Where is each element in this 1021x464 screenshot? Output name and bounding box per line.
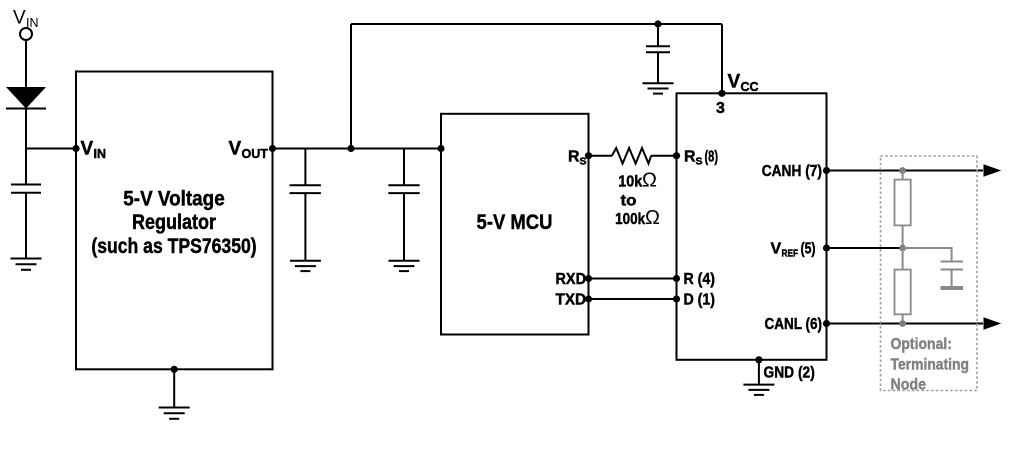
svg-text:OUT: OUT bbox=[242, 147, 269, 161]
node junction VREF gray bbox=[899, 245, 906, 252]
svg-text:IN: IN bbox=[94, 147, 107, 161]
capacitor C1 bbox=[11, 185, 41, 193]
wire RXD to R bbox=[589, 278, 677, 280]
resistor R1 value label bbox=[615, 170, 660, 230]
capacitor C3 bbox=[388, 185, 419, 193]
wire VCC drop to transceiver bbox=[721, 24, 723, 93]
pin R (4) of transceiver bbox=[673, 271, 715, 288]
junction node at MCU VCC pin bbox=[437, 145, 444, 152]
svg-text:V: V bbox=[728, 71, 741, 92]
capacitor CT bbox=[941, 262, 964, 270]
node junction CANH gray bbox=[899, 167, 906, 174]
regulator U1 text bbox=[91, 187, 256, 258]
svg-text:(5): (5) bbox=[801, 241, 816, 258]
ground G2 bbox=[159, 408, 190, 419]
wire CT to ground bar bbox=[951, 270, 953, 287]
wire to resistor RT1 bbox=[902, 171, 904, 180]
wire CANH to bus bbox=[827, 170, 984, 172]
svg-text:R: R bbox=[684, 148, 696, 165]
pin GND (2) of transceiver bbox=[755, 356, 814, 381]
arrowhead CANL bbox=[984, 317, 1002, 329]
svg-text:to: to bbox=[621, 193, 637, 210]
ground G4 bbox=[290, 261, 321, 271]
wire terminal to diode bbox=[25, 40, 27, 87]
capacitor C4 bbox=[646, 46, 670, 52]
pin VCC of transceiver bbox=[718, 71, 758, 97]
MCU U2 box bbox=[441, 114, 589, 335]
resistor R1 bbox=[589, 148, 676, 164]
wire GND to ground bbox=[758, 360, 760, 385]
resistor RT1 bbox=[895, 180, 911, 226]
wire C2 to ground bbox=[304, 193, 306, 261]
ground G3 bbox=[643, 83, 674, 93]
svg-text:Node: Node bbox=[891, 376, 927, 393]
svg-text:V: V bbox=[229, 139, 242, 160]
svg-text:CC: CC bbox=[741, 80, 759, 94]
pin TXD of MCU bbox=[556, 292, 593, 309]
ground G1 bbox=[11, 259, 42, 270]
wire VOUT rail bbox=[273, 148, 442, 150]
svg-text:D (1): D (1) bbox=[684, 292, 716, 309]
wire RT1 to VREF row bbox=[902, 225, 904, 248]
svg-text:Optional:: Optional: bbox=[891, 336, 952, 353]
wire to regulator VIN pin bbox=[26, 148, 76, 150]
svg-text:Regulator: Regulator bbox=[132, 211, 216, 234]
svg-text:V: V bbox=[771, 241, 782, 258]
ground bar of CT bbox=[941, 286, 964, 290]
svg-text:10k: 10k bbox=[618, 174, 642, 191]
optional terminating node dashed box bbox=[881, 156, 978, 391]
wire TXD to D bbox=[589, 298, 677, 300]
transceiver U3 box bbox=[677, 93, 827, 360]
svg-text:S: S bbox=[580, 155, 587, 167]
svg-text:Ω: Ω bbox=[645, 207, 660, 229]
wire VREF row to resistor RT2 bbox=[902, 248, 904, 270]
svg-text:S: S bbox=[696, 155, 703, 167]
svg-text:R (4): R (4) bbox=[684, 271, 716, 288]
arrowhead CANH bbox=[984, 164, 1002, 176]
wire C1 to ground bbox=[25, 193, 27, 259]
svg-text:GND (2): GND (2) bbox=[764, 365, 815, 382]
pin GND of U1 with wire bbox=[171, 366, 178, 408]
svg-text:5-V MCU: 5-V MCU bbox=[477, 211, 553, 234]
pin VOUT of U1 bbox=[229, 139, 277, 162]
pin VIN of U1 bbox=[72, 139, 106, 162]
svg-text:(such as TPS76350): (such as TPS76350) bbox=[91, 235, 256, 258]
svg-text:CANH (7): CANH (7) bbox=[762, 163, 822, 180]
diode D1 bbox=[6, 87, 46, 109]
wire diode to capacitor C1 bbox=[25, 109, 27, 185]
wire tap to capacitor C4 bbox=[657, 24, 659, 46]
resistor RT2 bbox=[895, 270, 911, 315]
pin CANL (6) of transceiver bbox=[765, 316, 831, 333]
wire C4 to ground bbox=[657, 52, 659, 83]
wire tap to capacitor C3 bbox=[403, 149, 405, 186]
wire VREF row to capacitor CT bbox=[903, 248, 952, 262]
pin RS (8) of transceiver bbox=[673, 148, 718, 167]
svg-text:Ω: Ω bbox=[642, 170, 657, 192]
terminal VIN circle bbox=[20, 28, 32, 40]
svg-text:TXD: TXD bbox=[556, 292, 587, 309]
pin D (1) of transceiver bbox=[673, 292, 715, 309]
svg-text:5-V Voltage: 5-V Voltage bbox=[123, 187, 224, 210]
wire C3 to ground bbox=[403, 193, 405, 261]
svg-text:V: V bbox=[13, 8, 26, 29]
ground G5 bbox=[389, 261, 420, 271]
node junction CANL gray bbox=[899, 320, 906, 327]
svg-text:V: V bbox=[81, 139, 94, 160]
pin RS of MCU bbox=[568, 148, 592, 167]
svg-text:3: 3 bbox=[716, 100, 725, 117]
wire tap to capacitor C2 bbox=[304, 149, 306, 186]
pin VREF (5) of transceiver bbox=[771, 241, 831, 260]
svg-text:Terminating: Terminating bbox=[891, 356, 970, 373]
optional terminating node text bbox=[891, 336, 970, 393]
svg-text:RXD: RXD bbox=[556, 271, 587, 288]
svg-text:100k: 100k bbox=[615, 211, 645, 228]
wire VREF to terminating node bbox=[827, 247, 903, 249]
regulator U1 box bbox=[76, 72, 273, 370]
svg-text:(8): (8) bbox=[705, 148, 719, 165]
ground G6 bbox=[743, 385, 774, 395]
node VIN label bbox=[13, 8, 39, 31]
wire CANL to bus bbox=[827, 323, 984, 325]
svg-text:REF: REF bbox=[782, 248, 799, 260]
wire RT2 to CANL row bbox=[902, 314, 904, 323]
wire riser to top rail bbox=[350, 24, 352, 150]
junction node top rail cap tap bbox=[654, 20, 661, 27]
pin CANH (7) of transceiver bbox=[762, 163, 830, 180]
capacitor C2 bbox=[290, 185, 321, 193]
junction node at rail riser bbox=[347, 145, 354, 152]
wire top rail bbox=[351, 23, 722, 25]
svg-text:CANL (6): CANL (6) bbox=[765, 316, 823, 333]
svg-text:R: R bbox=[568, 148, 580, 165]
pin RXD of MCU bbox=[556, 271, 593, 288]
